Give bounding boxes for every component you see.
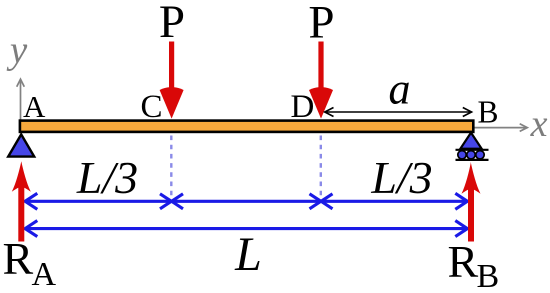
svg-text:a: a (389, 65, 411, 114)
dimension a arrow (325, 108, 472, 117)
load arrow P at D (309, 42, 333, 119)
svg-text:y: y (6, 29, 28, 72)
pin support at A (8, 134, 34, 156)
y-axis (17, 79, 25, 119)
x-axis (473, 124, 527, 132)
dimension line L/3 (D to B) (321, 193, 468, 209)
svg-text:A: A (23, 89, 46, 124)
load arrow P at C (160, 42, 184, 119)
svg-text:B: B (478, 95, 499, 130)
svg-text:C: C (141, 89, 163, 125)
svg-text:L: L (234, 228, 262, 281)
dimension line L/3 (A to C) (25, 193, 172, 209)
dimension line C to D (172, 194, 322, 209)
roller support at B (456, 133, 489, 160)
svg-text:B: B (477, 258, 500, 293)
reaction label R_A (3, 233, 57, 293)
beam (20, 121, 473, 132)
svg-text:x: x (530, 103, 548, 145)
dashed projection line at C (170, 136, 172, 198)
svg-text:D: D (291, 89, 315, 125)
reaction label R_B (448, 236, 500, 293)
reaction arrow R_A (12, 161, 31, 241)
svg-text:L/3: L/3 (370, 152, 432, 203)
svg-text:A: A (32, 256, 57, 293)
dashed projection line at D (320, 136, 322, 198)
reaction arrow R_B (462, 162, 481, 242)
dimension line L (A to B) (25, 221, 468, 237)
svg-text:R: R (3, 233, 34, 284)
svg-text:P: P (159, 0, 185, 48)
svg-text:R: R (448, 236, 479, 287)
svg-text:L/3: L/3 (76, 152, 138, 203)
svg-text:P: P (308, 0, 334, 49)
